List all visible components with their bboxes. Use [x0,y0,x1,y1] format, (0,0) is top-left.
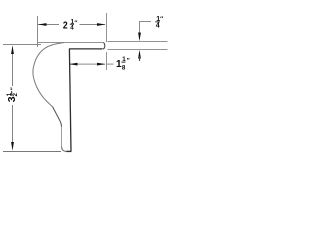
panel bottom line [108,49,168,51]
label 3-1/2 inch (rotated) [6,87,19,102]
arrow down of 1/4 dim [138,33,141,42]
arrow right of 1-1/8 [97,63,106,66]
dimension 2-1/4 line left segment [38,24,59,26]
arrow down of 3-1/2 [11,142,14,151]
svg-text:2: 2 [63,19,68,31]
extension line right of 2-1/4 dim [106,13,108,42]
panel top line [108,41,168,43]
arrow up of 3-1/2 [11,45,14,54]
profile bottom-left rounded corner [62,147,67,152]
extension line top of 3-1/2 dim [3,44,41,46]
profile flange underside [69,48,103,50]
profile nose curve [33,43,64,107]
profile stem left edge [61,127,63,147]
label 1-1/8 inch [116,56,130,72]
arrow left of 2-1/4 [38,23,47,26]
extension line bottom of 3-1/2 dim [3,151,61,153]
svg-text:8: 8 [122,64,126,71]
label 2-1/4 inch [63,19,78,32]
svg-text:″: ″ [160,16,163,23]
leader for 1/4 dim [140,22,152,34]
svg-text:″: ″ [127,57,130,64]
profile diagonal below nose [53,107,62,127]
profile bottom edge [66,150,71,152]
profile stem right edge [69,49,71,151]
profile flange rounded tip [103,43,105,49]
extension line left of 2-1/4 dim [37,16,39,47]
svg-text:4: 4 [156,23,160,30]
dimension 1-1/8 line [70,63,106,65]
svg-text:2: 2 [12,93,19,97]
svg-text:″: ″ [74,20,77,27]
arrow up of 1/4 dim [138,50,141,59]
profile top surface [38,42,103,44]
dimension 3-1/2 line lower segment [12,105,14,144]
arrow right of 2-1/4 [97,23,106,26]
arrow left of 1-1/8 [69,63,78,66]
svg-text:″: ″ [10,87,17,90]
dimension 3-1/2 line upper segment [12,52,14,86]
dimension 2-1/4 line right segment [80,24,106,26]
label 1/4 inch [155,16,163,30]
